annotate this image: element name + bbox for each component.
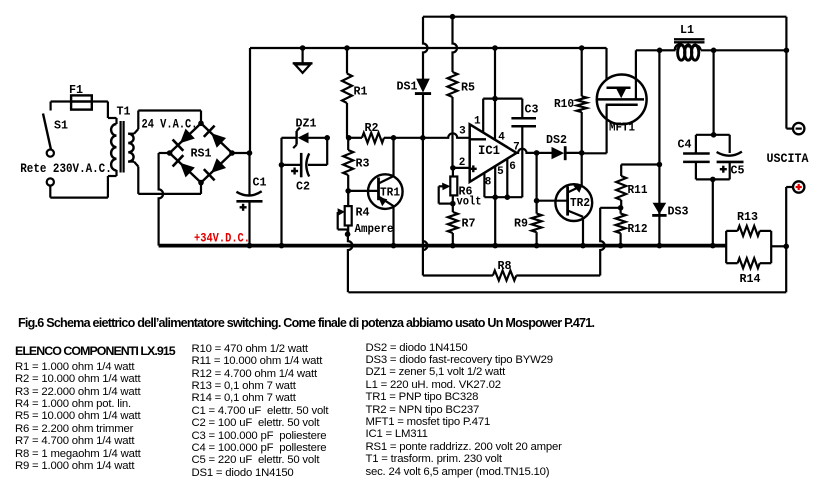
label C2 — [296, 180, 310, 194]
junction: R2/TR1 node — [391, 135, 397, 141]
label Rete 230V.A.C. — [20, 161, 112, 176]
label R4 — [356, 206, 370, 220]
mosfet MFT1 — [597, 75, 647, 125]
junction: rail-R1 — [344, 45, 350, 51]
label R11 — [628, 183, 648, 197]
resistor R8 — [423, 271, 600, 281]
junction: R12-bus — [618, 243, 624, 249]
wire: MFT1 source — [582, 105, 607, 154]
wire: plus terminal to R13 node and bottom rail — [348, 187, 793, 292]
svg-text:R5: R5 — [461, 81, 475, 95]
junction: R11/R12 node — [618, 205, 624, 211]
capacitor C5 — [717, 135, 744, 180]
parts list column 3 — [366, 342, 562, 478]
svg-text:C1: C1 — [253, 176, 267, 190]
junction: R11 tap — [657, 162, 663, 168]
wire: IC1 output (hops C3) — [517, 149, 537, 153]
svg-text:C2: C2 — [296, 180, 310, 194]
parts list column 1 — [15, 361, 141, 473]
wire: MFT1 drain — [636, 50, 660, 99]
zener DZ1 — [282, 128, 328, 149]
label pin 4 — [498, 131, 505, 143]
svg-text:DZ1: DZ1 — [296, 117, 317, 131]
label +34V.D.C. — [194, 231, 250, 246]
svg-text:MFT1: MFT1 — [609, 120, 635, 134]
pin 1 line — [482, 99, 484, 133]
op-amp IC1 — [470, 124, 517, 182]
junction: L1 left node — [657, 48, 663, 54]
svg-text:R1: R1 — [354, 85, 368, 99]
svg-text:DS2: DS2 — [546, 133, 567, 147]
junction: L1 right node — [711, 48, 717, 54]
svg-text:R11: R11 — [628, 183, 648, 197]
label C4 — [678, 137, 692, 151]
label DS3 — [668, 205, 689, 219]
transistor TR2 — [537, 184, 593, 221]
wire: minus terminal feed — [786, 17, 793, 129]
label C3 — [525, 103, 539, 117]
label R10 — [554, 97, 574, 111]
junction: pin2 node — [450, 165, 456, 171]
label R3 — [356, 157, 370, 171]
svg-text:+34V.D.C.: +34V.D.C. — [194, 231, 250, 246]
resistor R3 — [343, 138, 353, 191]
svg-text:R8: R8 — [498, 259, 512, 273]
svg-text:R9: R9 — [514, 217, 528, 231]
junction: DS3-bus — [657, 243, 663, 249]
label USCITA — [767, 151, 809, 166]
svg-text:3: 3 — [459, 125, 466, 137]
junction: C4/C5 nodes — [710, 132, 716, 248]
wire: DZ1 left vertical — [280, 138, 282, 246]
label R13 — [737, 210, 758, 224]
junction: R13 stub node — [783, 244, 789, 250]
svg-text:C4: C4 — [678, 137, 692, 151]
wire: R8 to pin3 node (hops bus) — [423, 138, 428, 276]
label DS1 — [397, 80, 418, 94]
svg-text:1: 1 — [474, 116, 481, 128]
junction: rail-ground — [300, 45, 306, 51]
label F1 — [69, 83, 83, 97]
label T1 — [117, 105, 131, 119]
capacitor C2 — [282, 138, 328, 178]
transformer T1 — [111, 121, 134, 173]
wire: mains bottom wire — [50, 170, 116, 198]
label DS2 — [546, 133, 567, 147]
svg-text:4: 4 — [498, 131, 505, 143]
label Ampere — [355, 222, 394, 236]
junction: DS2/R10 node — [579, 150, 585, 156]
junction: node bridge/C1 — [247, 150, 253, 156]
resistor R13 — [726, 226, 771, 236]
wire: IC1 bottom rail — [484, 196, 522, 198]
wire: R4 node to bottom rail (hops bus) — [348, 234, 353, 292]
bridge rectifier RS1 — [170, 123, 232, 182]
label R12 — [628, 222, 648, 236]
svg-text:C3: C3 — [525, 103, 539, 117]
junction: C1-bus — [247, 243, 253, 249]
wire: mains top wire S1-F1-T1 — [51, 102, 117, 125]
svg-text:R10: R10 — [554, 97, 574, 111]
resistor R10 — [577, 48, 587, 153]
wire: divider to R8 (hops bus) — [600, 208, 620, 276]
svg-text:R7: R7 — [462, 217, 476, 231]
parts list header — [15, 344, 175, 358]
non-inverting input + (pin 2) — [453, 165, 477, 172]
diode DS3 — [652, 203, 666, 216]
polarity + of C2 — [291, 168, 298, 175]
caption Fig.6 — [18, 316, 594, 330]
svg-text:R12: R12 — [628, 222, 648, 236]
junction: R4 bottom node — [345, 231, 351, 237]
svg-text:R14: R14 — [740, 272, 761, 286]
transistor TR1 — [348, 174, 402, 209]
junction: DZ1/R1 node — [324, 135, 330, 141]
label R8 — [498, 259, 512, 273]
junction: TR1 emitter-bus — [391, 243, 397, 249]
svg-text:DS1: DS1 — [397, 80, 418, 94]
label R14 — [740, 272, 761, 286]
svg-text:R3: R3 — [356, 157, 370, 171]
label R1 — [354, 85, 368, 99]
wire: rail corner to gate — [605, 48, 607, 88]
resistor R1 — [342, 48, 352, 138]
wiper of R6 — [439, 183, 453, 204]
wire: bridge + to bus (hops secondary) — [159, 153, 170, 246]
trimmer R4 — [345, 191, 352, 234]
junction: R7-bus — [450, 243, 456, 249]
wire: TR2 bottom to bus — [580, 217, 586, 249]
junction: bottom rail nodes — [492, 194, 510, 200]
label IC1 — [478, 144, 500, 158]
wire: TR2 top to DS2 node — [581, 153, 583, 185]
inductor L1 — [660, 45, 787, 61]
core of L1 — [674, 39, 705, 42]
svg-text:USCITA: USCITA — [767, 151, 809, 166]
label pin 5 — [497, 166, 504, 178]
pin 4 line — [494, 99, 496, 141]
junction: bridge corners — [167, 121, 235, 186]
resistor R9 — [532, 153, 542, 246]
polarity + of C1 — [240, 204, 247, 211]
junction: R6 bottom node — [450, 201, 456, 207]
terminal + USCITA — [793, 181, 804, 192]
trimmer R6 — [450, 168, 457, 204]
label 24 V.A.C. — [142, 117, 198, 132]
resistor R5 — [448, 17, 458, 168]
svg-text:R4: R4 — [356, 206, 370, 220]
capacitor C1 — [236, 153, 262, 246]
svg-text:IC1: IC1 — [478, 144, 500, 158]
capacitor C3 — [511, 99, 536, 198]
switch S1 — [43, 114, 54, 186]
wire: DS3 branch vertical — [658, 50, 660, 245]
wire: R13/R14 box sides — [726, 231, 786, 263]
svg-text:2: 2 — [459, 157, 466, 169]
polarity + of C5 — [720, 166, 727, 173]
svg-text:RS1: RS1 — [191, 147, 212, 161]
wire: 0V rail — [250, 48, 607, 153]
label TR2 — [570, 196, 590, 210]
label pin 1 — [474, 116, 481, 128]
wire: bridge - to C1 node — [232, 152, 250, 154]
junction: DZ1/C2 left node — [279, 162, 285, 168]
junction: R1/R3 node — [346, 135, 352, 141]
label C5 — [731, 164, 745, 178]
capacitor C4 — [683, 135, 710, 180]
junction: R9-bus — [534, 243, 540, 249]
junction: R3/TR1 base node — [345, 188, 351, 194]
svg-text:5: 5 — [497, 166, 504, 178]
wire: C4/C5 top — [696, 50, 730, 135]
label R9 — [514, 217, 528, 231]
wire: TR1 collector — [392, 138, 394, 177]
junction: outer wire node — [784, 48, 790, 54]
label volt — [457, 195, 482, 209]
junction: top rail node — [492, 96, 498, 102]
resistor R2 — [349, 133, 394, 143]
resistor R11 — [616, 165, 659, 208]
label pin 6 — [509, 161, 516, 173]
svg-text:DS3: DS3 — [668, 205, 689, 219]
junction: DS1/pin3 node — [420, 135, 426, 141]
svg-text:L1: L1 — [680, 23, 694, 37]
wire: IC1 top rail — [483, 48, 522, 99]
label pin 3 — [459, 125, 466, 137]
svg-text:volt: volt — [457, 195, 482, 209]
wire: pin5 to bus — [492, 197, 498, 248]
svg-text:C5: C5 — [731, 164, 745, 178]
label S1 — [54, 119, 68, 133]
wire: TR1 emitter to bus — [392, 206, 394, 245]
junction: left vert to bus — [279, 243, 285, 249]
junction: TR2 base node — [534, 198, 540, 204]
parts list column 2 — [192, 343, 329, 479]
svg-text:24 V.A.C.: 24 V.A.C. — [142, 117, 198, 132]
pin 6 line — [506, 159, 508, 197]
fuse F1 — [71, 95, 92, 109]
junction: 0V rail-R10 — [579, 45, 585, 51]
wiper of R4 — [338, 208, 348, 234]
label TR1 — [380, 186, 400, 200]
label DZ1 — [296, 117, 317, 131]
diode DS1 — [415, 17, 431, 138]
label R7 — [462, 217, 476, 231]
junction: 0V rail-IC1 — [492, 45, 498, 51]
svg-text:TR2: TR2 — [570, 196, 590, 210]
svg-text:TR1: TR1 — [380, 186, 400, 200]
svg-text:8: 8 — [485, 177, 492, 189]
wire: pin3 wire hops R5 line — [394, 133, 470, 138]
svg-text:6: 6 — [509, 161, 516, 173]
pin 8 line — [483, 173, 485, 197]
label R6 — [459, 185, 473, 199]
ground — [293, 48, 313, 73]
svg-text:R2: R2 — [365, 121, 379, 135]
wire: C4/C5 bottom — [696, 179, 730, 245]
resistor R14 — [726, 258, 771, 268]
svg-text:Rete 230V.A.C.: Rete 230V.A.C. — [20, 161, 112, 176]
label pin 2 — [459, 157, 466, 169]
label C1 — [253, 176, 267, 190]
wire: +34V bus — [159, 244, 727, 248]
label pin 8 — [485, 177, 492, 189]
svg-text:Ampere: Ampere — [355, 222, 394, 236]
resistor R7 — [448, 204, 458, 246]
wire: outer top wire — [423, 16, 786, 18]
label R5 — [461, 81, 475, 95]
pin 5 line — [494, 166, 496, 197]
inverting input - (pin 3) — [470, 138, 486, 140]
svg-text:S1: S1 — [54, 119, 68, 133]
diode DS2 — [537, 146, 582, 160]
junction: output node — [534, 150, 540, 156]
wire: secondary bottom — [128, 162, 201, 194]
resistor R12 — [616, 208, 626, 246]
label RS1 — [191, 147, 212, 161]
wire: secondary top 24VAC — [128, 111, 201, 134]
label pin 7 — [513, 142, 520, 154]
svg-text:T1: T1 — [117, 105, 131, 119]
label L1 — [680, 23, 694, 37]
label MFT1 — [609, 120, 635, 134]
junction: outer-R5 — [450, 14, 456, 20]
svg-text:F1: F1 — [69, 83, 83, 97]
label R2 — [365, 121, 379, 135]
terminal - USCITA — [793, 123, 804, 134]
svg-text:R13: R13 — [737, 210, 758, 224]
